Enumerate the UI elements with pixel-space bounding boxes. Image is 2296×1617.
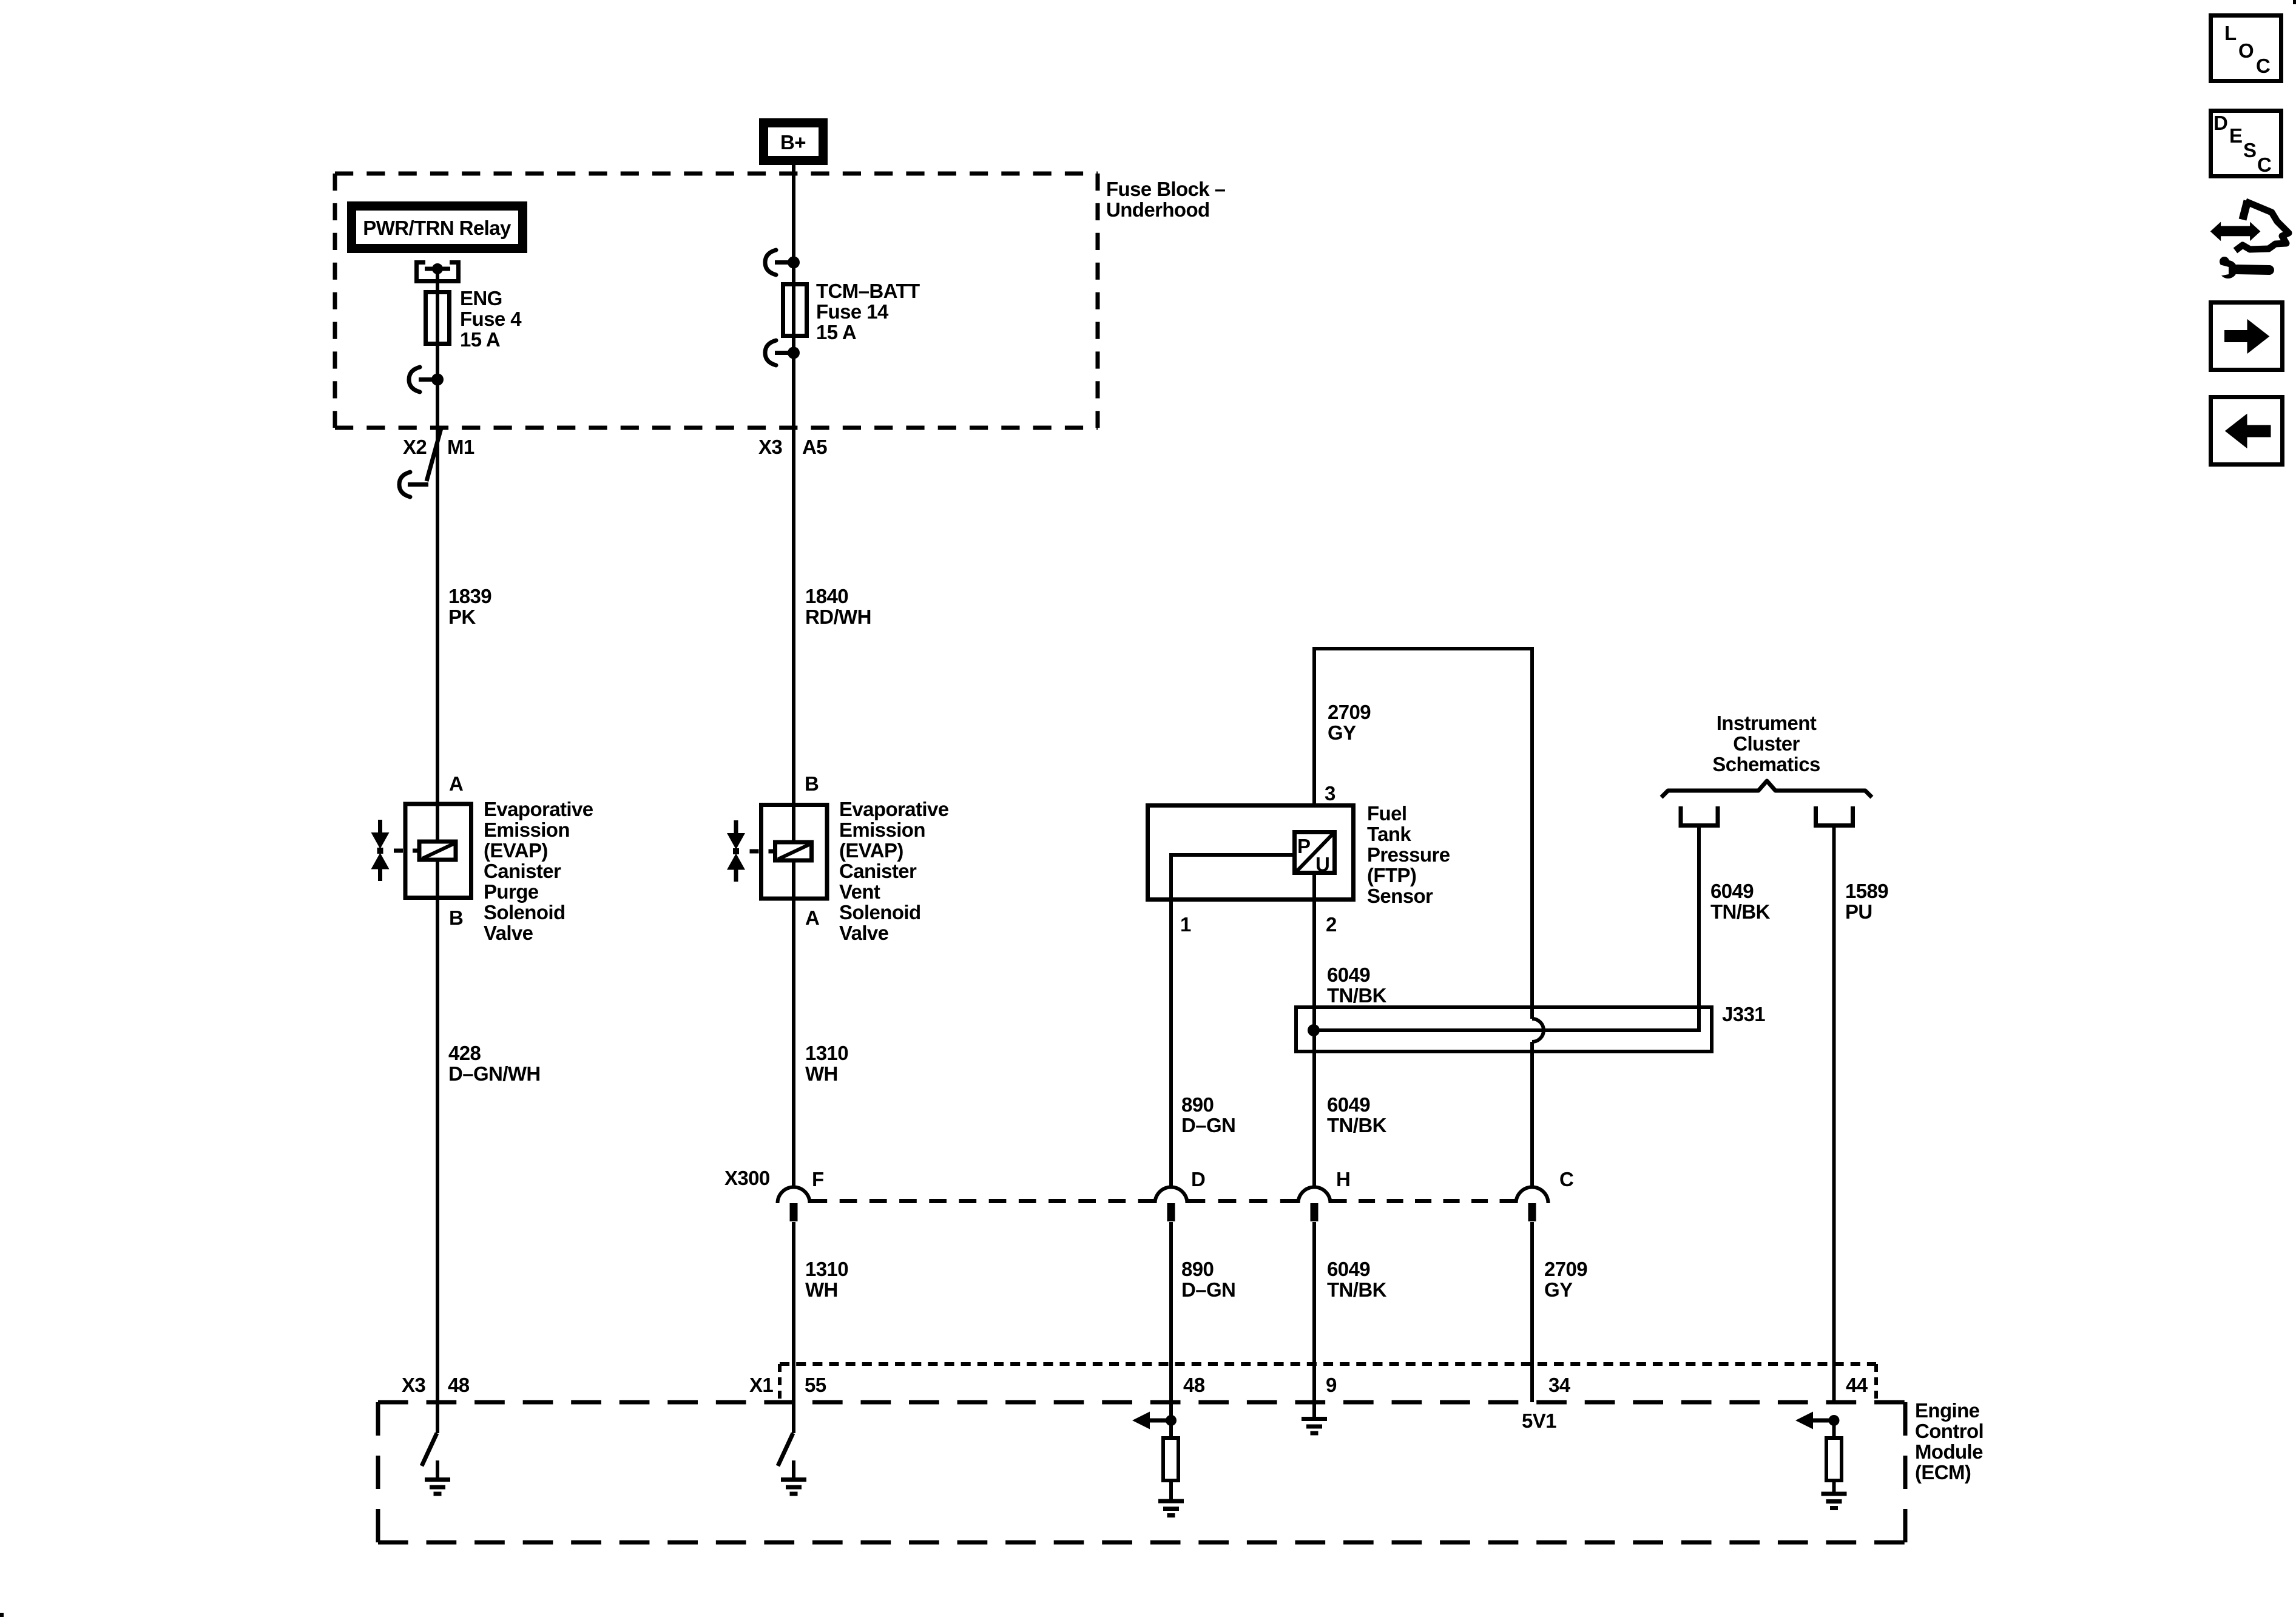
- svg-text:Schematics: Schematics: [1712, 753, 1820, 775]
- svg-text:Control: Control: [1915, 1420, 1984, 1442]
- svg-text:Solenoid: Solenoid: [484, 901, 566, 923]
- label TCM-BATT Fuse 14 15 A: [816, 280, 920, 343]
- svg-text:48: 48: [448, 1374, 470, 1396]
- svg-text:Instrument: Instrument: [1717, 712, 1817, 734]
- connector arc F: [778, 1187, 810, 1221]
- svg-text:48: 48: [1183, 1374, 1205, 1396]
- label wire 1310 WH lower: [805, 1258, 848, 1301]
- icon diagnostic hand tool: [2210, 201, 2289, 279]
- ground ECM left: [425, 1460, 450, 1494]
- label wire 1839 PK: [448, 585, 491, 628]
- svg-text:Underhood: Underhood: [1106, 198, 1210, 221]
- label wire 1589 PU: [1845, 880, 1888, 923]
- svg-text:D–GN: D–GN: [1181, 1278, 1235, 1301]
- svg-text:6049: 6049: [1710, 880, 1754, 902]
- solenoid EVAP canister purge valve: [394, 802, 471, 899]
- sensor B FTP fuel tank pressure: [1148, 806, 1354, 902]
- svg-text:5V1: 5V1: [1522, 1409, 1556, 1432]
- label wire 2709 GY top: [1328, 701, 1371, 744]
- page corner mark top right: [2293, 0, 2296, 4]
- wire hop 2709 over splice: [1532, 1019, 1544, 1042]
- wire instrument cluster right 1589 PU to ECM 44: [1832, 825, 1836, 1402]
- svg-text:E: E: [2229, 124, 2242, 147]
- svg-text:TN/BK: TN/BK: [1327, 1278, 1387, 1301]
- fuse F14 TCM-BATT: [783, 262, 807, 353]
- label wire 6049 TN/BK above X300: [1327, 1093, 1387, 1136]
- wire D to ECM 48: [1169, 1222, 1173, 1420]
- label wire 890 D-GN lower: [1181, 1258, 1235, 1301]
- label wire 428 D-GN/WH: [448, 1042, 541, 1085]
- wire H to ECM 9: [1312, 1222, 1316, 1419]
- svg-text:L: L: [2224, 22, 2237, 44]
- svg-text:428: 428: [448, 1042, 481, 1064]
- junction dot J331 on 6049: [1308, 1024, 1320, 1036]
- svg-text:TN/BK: TN/BK: [1327, 1114, 1387, 1136]
- node ECM pin 44 junction: [1829, 1415, 1840, 1426]
- wire vent solenoid to X300 F: [792, 899, 795, 1187]
- svg-text:J331: J331: [1722, 1003, 1765, 1025]
- svg-text:15 A: 15 A: [816, 321, 856, 343]
- svg-text:6049: 6049: [1327, 1093, 1370, 1116]
- svg-text:C: C: [2257, 154, 2271, 176]
- fuse F1 ENG Fuse 4: [426, 290, 450, 346]
- svg-text:X2: X2: [403, 436, 427, 458]
- svg-text:Vent: Vent: [839, 880, 880, 903]
- svg-text:Fuse Block –: Fuse Block –: [1106, 178, 1226, 200]
- svg-text:B: B: [805, 772, 819, 795]
- label wire 1310 WH upper: [805, 1042, 848, 1085]
- svg-text:(FTP): (FTP): [1367, 864, 1416, 886]
- svg-text:2709: 2709: [1328, 701, 1371, 723]
- svg-text:P: P: [1297, 835, 1310, 857]
- svg-text:A5: A5: [802, 436, 827, 458]
- svg-text:Evaporative: Evaporative: [839, 798, 949, 820]
- label Instrument Cluster Schematics: [1712, 712, 1820, 775]
- svg-text:Valve: Valve: [839, 922, 889, 944]
- svg-text:(EVAP): (EVAP): [839, 839, 903, 862]
- svg-text:TCM–BATT: TCM–BATT: [816, 280, 920, 302]
- wire TCM fuse down to vent solenoid: [792, 353, 795, 803]
- svg-text:B+: B+: [780, 131, 806, 154]
- ground ECM mid: [781, 1460, 806, 1494]
- wire F to ECM 55: [792, 1222, 795, 1433]
- node ECM pin 48 junction: [1166, 1415, 1177, 1426]
- switch ECM driver left: [422, 1433, 437, 1466]
- svg-text:U: U: [1315, 853, 1329, 876]
- label Evaporative Emission (EVAP) Canister Vent Solenoid Valve: [839, 798, 949, 944]
- svg-text:2709: 2709: [1544, 1258, 1587, 1280]
- arrow ECM pin 44: [1795, 1412, 1834, 1430]
- svg-text:34: 34: [1548, 1374, 1571, 1396]
- svg-text:1310: 1310: [805, 1258, 848, 1280]
- svg-text:A: A: [449, 772, 463, 795]
- svg-text:X300: X300: [724, 1167, 770, 1189]
- valve symbol vent: [727, 820, 745, 882]
- svg-text:M1: M1: [447, 436, 474, 458]
- connector instrument cluster right: [1814, 806, 1855, 826]
- svg-text:9: 9: [1326, 1374, 1337, 1396]
- splice box J331: [1296, 1007, 1712, 1052]
- icon arrow back box: [2211, 397, 2283, 465]
- label Fuse Block - Underhood: [1106, 178, 1226, 221]
- ECM X1 connector dotted bracket: [780, 1364, 1876, 1399]
- svg-text:1589: 1589: [1845, 880, 1888, 902]
- connector X300 dashed line: [810, 1199, 1516, 1203]
- resistor ECM pin 48: [1163, 1420, 1178, 1480]
- label Engine Control Module (ECM): [1915, 1399, 1984, 1484]
- svg-text:A: A: [805, 906, 819, 929]
- icon DESC box: [2211, 111, 2281, 177]
- svg-text:Module: Module: [1915, 1440, 1983, 1463]
- svg-text:C: C: [1559, 1168, 1573, 1190]
- svg-text:890: 890: [1181, 1093, 1214, 1116]
- wire FTP pin 3 loop 2709 GY: [1314, 649, 1532, 1019]
- svg-text:TN/BK: TN/BK: [1327, 984, 1387, 1007]
- svg-text:1840: 1840: [805, 585, 848, 607]
- svg-text:WH: WH: [805, 1062, 838, 1085]
- svg-text:(EVAP): (EVAP): [484, 839, 548, 862]
- svg-text:Cluster: Cluster: [1733, 732, 1800, 755]
- clip terminal below ENG fuse: [409, 367, 444, 392]
- svg-text:Tank: Tank: [1367, 823, 1411, 845]
- svg-text:2: 2: [1326, 913, 1337, 936]
- label wire 2709 GY lower: [1544, 1258, 1587, 1301]
- svg-text:Sensor: Sensor: [1367, 885, 1433, 907]
- svg-text:Canister: Canister: [484, 860, 561, 882]
- svg-text:PWR/TRN Relay: PWR/TRN Relay: [363, 217, 512, 239]
- svg-text:1: 1: [1180, 913, 1191, 936]
- svg-text:Emission: Emission: [484, 819, 570, 841]
- svg-text:1310: 1310: [805, 1042, 848, 1064]
- svg-text:44: 44: [1846, 1374, 1868, 1396]
- svg-text:Solenoid: Solenoid: [839, 901, 921, 923]
- icon LOC box: [2211, 16, 2281, 81]
- svg-text:Emission: Emission: [839, 819, 925, 841]
- svg-text:890: 890: [1181, 1258, 1214, 1280]
- svg-text:D–GN: D–GN: [1181, 1114, 1235, 1136]
- svg-text:3: 3: [1325, 782, 1335, 805]
- relay output terminal bracket: [414, 260, 461, 292]
- svg-text:D–GN/WH: D–GN/WH: [448, 1062, 541, 1085]
- svg-text:15 A: 15 A: [460, 328, 500, 351]
- svg-text:X3: X3: [758, 436, 782, 458]
- svg-text:O: O: [2238, 39, 2254, 62]
- svg-text:B: B: [449, 906, 463, 929]
- svg-text:Fuel: Fuel: [1367, 802, 1406, 825]
- svg-text:Canister: Canister: [839, 860, 917, 882]
- ECM dashed box: [378, 1402, 1905, 1542]
- valve symbol purge: [371, 820, 390, 881]
- connector arc D: [1155, 1187, 1187, 1221]
- svg-text:X1: X1: [749, 1374, 773, 1396]
- svg-text:GY: GY: [1328, 721, 1356, 744]
- wire FTP pin 1 890 D-GN to X300 D: [1169, 902, 1173, 1187]
- svg-text:GY: GY: [1544, 1278, 1573, 1301]
- label wire 6049 TN/BK below sensor: [1327, 964, 1387, 1007]
- svg-text:C: C: [2256, 55, 2270, 77]
- connector arc H: [1298, 1187, 1331, 1221]
- switch ECM driver mid: [778, 1433, 793, 1466]
- svg-text:Fuse 14: Fuse 14: [816, 300, 889, 323]
- svg-text:6049: 6049: [1327, 964, 1370, 986]
- label ENG Fuse 4 15 A: [460, 287, 522, 351]
- wire 2709 below hop to X300 C: [1530, 1042, 1534, 1187]
- resistor ECM pin 44: [1826, 1420, 1842, 1480]
- wire C to ECM 34: [1530, 1222, 1534, 1402]
- svg-text:Engine: Engine: [1915, 1399, 1980, 1422]
- svg-text:(ECM): (ECM): [1915, 1461, 1971, 1484]
- label wire 1840 RD/WH: [805, 585, 871, 628]
- clip terminal below TCM fuse: [765, 340, 800, 365]
- wire instrument cluster left 6049 to J331: [1312, 825, 1699, 1030]
- svg-text:TN/BK: TN/BK: [1710, 900, 1771, 923]
- wire B+ to TCM-BATT fuse: [792, 165, 795, 262]
- svg-text:6049: 6049: [1327, 1258, 1370, 1280]
- svg-text:S: S: [2243, 139, 2256, 161]
- wire FTP pin 2 6049 TN/BK to X300 H: [1312, 902, 1316, 1187]
- label wire 6049 TN/BK lower: [1327, 1258, 1387, 1301]
- label Evaporative Emission (EVAP) Canister Purge Solenoid Valve: [484, 798, 593, 944]
- svg-text:RD/WH: RD/WH: [805, 606, 871, 628]
- connector X2 pin M1 slash: [399, 428, 441, 497]
- icon arrow next box: [2211, 303, 2283, 370]
- svg-text:F: F: [812, 1168, 824, 1190]
- svg-text:55: 55: [805, 1374, 826, 1396]
- svg-text:PK: PK: [448, 606, 476, 628]
- svg-text:Valve: Valve: [484, 922, 533, 944]
- ground ECM pin 48: [1158, 1482, 1184, 1516]
- arrow ECM pin 48: [1132, 1412, 1171, 1430]
- svg-text:Pressure: Pressure: [1367, 843, 1450, 866]
- clip terminal above TCM fuse: [765, 250, 800, 275]
- solenoid EVAP canister vent valve: [750, 803, 828, 899]
- page corner mark bottom left: [0, 1613, 4, 1617]
- power symbol B+: [764, 123, 823, 161]
- svg-text:X3: X3: [402, 1374, 425, 1396]
- label wire 6049 TN/BK cluster: [1710, 880, 1771, 923]
- svg-text:Evaporative: Evaporative: [484, 798, 593, 820]
- svg-text:Purge: Purge: [484, 880, 539, 903]
- svg-text:ENG: ENG: [460, 287, 502, 309]
- label Fuel Tank Pressure (FTP) Sensor: [1367, 802, 1450, 907]
- svg-text:H: H: [1336, 1168, 1350, 1190]
- ground ECM pin 9: [1302, 1402, 1327, 1433]
- wire fuse 1 down to solenoid: [436, 346, 439, 802]
- label wire 890 D-GN above X300: [1181, 1093, 1235, 1136]
- svg-text:1839: 1839: [448, 585, 491, 607]
- relay K PWR/TRN Relay: [352, 206, 523, 249]
- svg-text:D: D: [2213, 112, 2227, 134]
- brace instrument cluster: [1661, 781, 1872, 797]
- fuse block underhood dashed box: [335, 174, 1098, 428]
- wire purge solenoid to ECM: [436, 899, 439, 1433]
- svg-text:PU: PU: [1845, 900, 1872, 923]
- ground ECM pin 44: [1822, 1482, 1847, 1508]
- svg-text:WH: WH: [805, 1278, 838, 1301]
- connector arc C: [1516, 1187, 1548, 1221]
- svg-text:Fuse 4: Fuse 4: [460, 308, 522, 330]
- svg-text:D: D: [1191, 1168, 1205, 1190]
- connector instrument cluster left: [1679, 806, 1720, 826]
